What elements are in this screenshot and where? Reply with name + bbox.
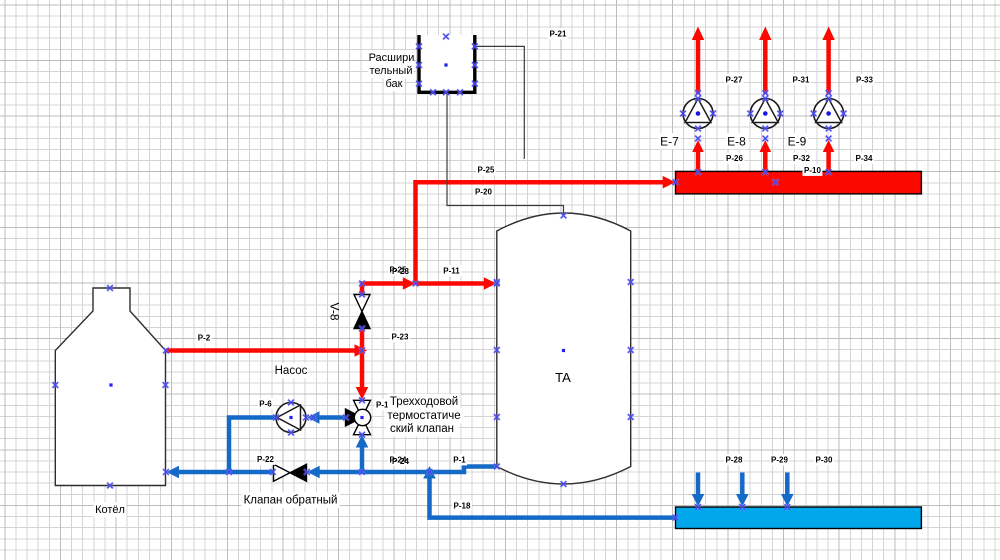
- svg-text:P-22: P-22: [257, 455, 274, 464]
- svg-text:P-23: P-23: [392, 267, 409, 276]
- svg-text:E-8: E-8: [727, 135, 746, 149]
- svg-text:E-7: E-7: [660, 135, 679, 149]
- svg-text:P-10: P-10: [804, 166, 821, 175]
- svg-text:P-18: P-18: [454, 502, 471, 511]
- svg-text:тельный: тельный: [370, 65, 413, 77]
- svg-text:P-2: P-2: [198, 334, 211, 343]
- svg-text:P-28: P-28: [726, 456, 743, 465]
- svg-text:Трехходовой: Трехходовой: [390, 396, 458, 408]
- svg-text:Насос: Насос: [275, 365, 308, 377]
- svg-text:термостатиче: термостатиче: [387, 410, 460, 422]
- svg-text:P-30: P-30: [816, 456, 833, 465]
- svg-text:Клапан обратный: Клапан обратный: [244, 495, 338, 507]
- svg-text:P-26: P-26: [726, 154, 743, 163]
- svg-text:P-25: P-25: [478, 166, 495, 175]
- svg-text:P-33: P-33: [856, 76, 873, 85]
- svg-text:P-32: P-32: [793, 154, 810, 163]
- svg-text:E-9: E-9: [788, 135, 807, 149]
- svg-text:P-21: P-21: [550, 30, 567, 39]
- svg-text:Котёл: Котёл: [95, 504, 125, 516]
- svg-text:P-31: P-31: [793, 76, 810, 85]
- svg-text:P-27: P-27: [726, 76, 743, 85]
- svg-text:P-11: P-11: [443, 267, 460, 276]
- svg-text:P-29: P-29: [771, 456, 788, 465]
- svg-text:P-20: P-20: [475, 188, 492, 197]
- svg-text:TA: TA: [555, 370, 571, 385]
- svg-text:P-23: P-23: [392, 333, 409, 342]
- svg-text:Расшири: Расшири: [369, 52, 415, 64]
- svg-text:P-1: P-1: [453, 456, 466, 465]
- svg-text:P-34: P-34: [856, 154, 873, 163]
- svg-text:ский клапан: ский клапан: [390, 423, 454, 435]
- svg-text:P-6: P-6: [259, 400, 272, 409]
- svg-text:P-24: P-24: [392, 457, 409, 466]
- svg-text:бак: бак: [386, 78, 403, 90]
- svg-text:V-8: V-8: [328, 302, 342, 320]
